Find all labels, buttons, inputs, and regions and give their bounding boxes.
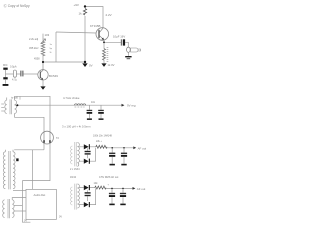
svg-text:+9V: +9V	[74, 3, 79, 7]
svg-text:4558: 4558	[34, 57, 40, 60]
svg-text:0.5µA: 0.5µA	[10, 66, 17, 69]
svg-text:10µF 16V: 10µF 16V	[113, 34, 125, 38]
svg-text:2.2V: 2.2V	[106, 13, 112, 17]
svg-text:1N34: 1N34	[70, 176, 77, 179]
svg-text:3 x 100 µH + 4t 0.5mm: 3 x 100 µH + 4t 0.5mm	[62, 125, 91, 129]
svg-text:AF out: AF out	[137, 187, 146, 191]
svg-text:100k 10n 1N4148: 100k 10n 1N4148	[93, 135, 113, 138]
svg-text:KT315B: KT315B	[90, 24, 101, 28]
svg-text:4.7µ: 4.7µ	[12, 79, 17, 82]
svg-text:455 kHz: 455 kHz	[29, 46, 39, 50]
svg-text:103: 103	[45, 33, 50, 37]
svg-text:MIC: MIC	[3, 64, 8, 67]
svg-text:BC549: BC549	[49, 74, 58, 78]
svg-text:0V: 0V	[89, 64, 93, 68]
svg-text:to vdd: to vdd	[11, 96, 18, 99]
svg-text:Audio Det: Audio Det	[34, 193, 46, 197]
svg-text:0V: 0V	[59, 216, 62, 219]
svg-text:1k: 1k	[79, 12, 83, 16]
svg-text:AF out: AF out	[138, 147, 147, 151]
svg-text:0.5V RMS AF out: 0.5V RMS AF out	[99, 176, 119, 179]
svg-text:4.7mH choke: 4.7mH choke	[63, 96, 80, 100]
svg-text:Ⓒ Copy of NxSpy: Ⓒ Copy of NxSpy	[4, 3, 31, 8]
svg-text:10n: 10n	[91, 101, 96, 104]
svg-text:9V reg: 9V reg	[127, 104, 136, 108]
svg-text:22k +: 22k +	[96, 140, 103, 143]
svg-text:1k 0V: 1k 0V	[108, 63, 115, 67]
svg-text:0V: 0V	[24, 220, 27, 223]
svg-text:2.2k adj: 2.2k adj	[29, 37, 39, 41]
svg-text:2 x 1N34: 2 x 1N34	[70, 168, 80, 171]
